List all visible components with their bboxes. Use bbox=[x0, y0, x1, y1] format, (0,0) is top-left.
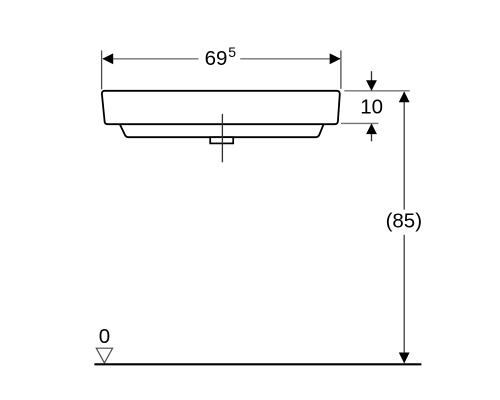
svg-text:5: 5 bbox=[228, 44, 236, 60]
svg-text:0: 0 bbox=[99, 325, 110, 348]
svg-text:(85): (85) bbox=[386, 209, 422, 232]
svg-text:10: 10 bbox=[360, 96, 383, 119]
svg-text:69: 69 bbox=[205, 47, 228, 70]
